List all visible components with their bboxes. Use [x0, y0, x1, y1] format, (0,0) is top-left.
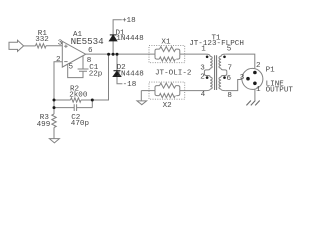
svg-text:1: 1 [201, 45, 206, 53]
svg-text:NE5534: NE5534 [71, 36, 105, 47]
svg-text:OUTPUT: OUTPUT [266, 87, 294, 95]
svg-text:5: 5 [69, 64, 74, 72]
svg-text:3: 3 [240, 74, 245, 82]
svg-text:1N4448: 1N4448 [117, 70, 145, 78]
svg-text:332: 332 [35, 36, 49, 44]
svg-text:8: 8 [227, 92, 232, 100]
svg-text:499: 499 [37, 121, 51, 129]
svg-text:22p: 22p [89, 71, 103, 79]
svg-text:2: 2 [56, 56, 61, 64]
svg-text:3: 3 [200, 65, 205, 73]
svg-text:1N4448: 1N4448 [116, 35, 144, 43]
svg-text:5: 5 [227, 45, 232, 53]
svg-text:-18: -18 [123, 81, 137, 89]
svg-text:2: 2 [200, 74, 205, 82]
svg-text:X2: X2 [163, 102, 173, 110]
svg-text:JT-123-FLPCH: JT-123-FLPCH [189, 40, 244, 48]
svg-text:7: 7 [228, 65, 233, 73]
svg-text:P1: P1 [266, 67, 276, 75]
svg-text:JT-OLI-2: JT-OLI-2 [155, 69, 192, 77]
svg-text:4: 4 [201, 91, 206, 99]
svg-text:+18: +18 [122, 17, 136, 25]
svg-text:2k00: 2k00 [69, 92, 88, 100]
svg-text:1: 1 [256, 86, 261, 94]
svg-text:2: 2 [256, 62, 261, 70]
svg-text:6: 6 [227, 75, 232, 83]
svg-text:6: 6 [88, 47, 93, 55]
svg-text:X1: X1 [161, 38, 171, 46]
svg-text:3: 3 [58, 40, 63, 48]
svg-text:470p: 470p [71, 120, 90, 128]
